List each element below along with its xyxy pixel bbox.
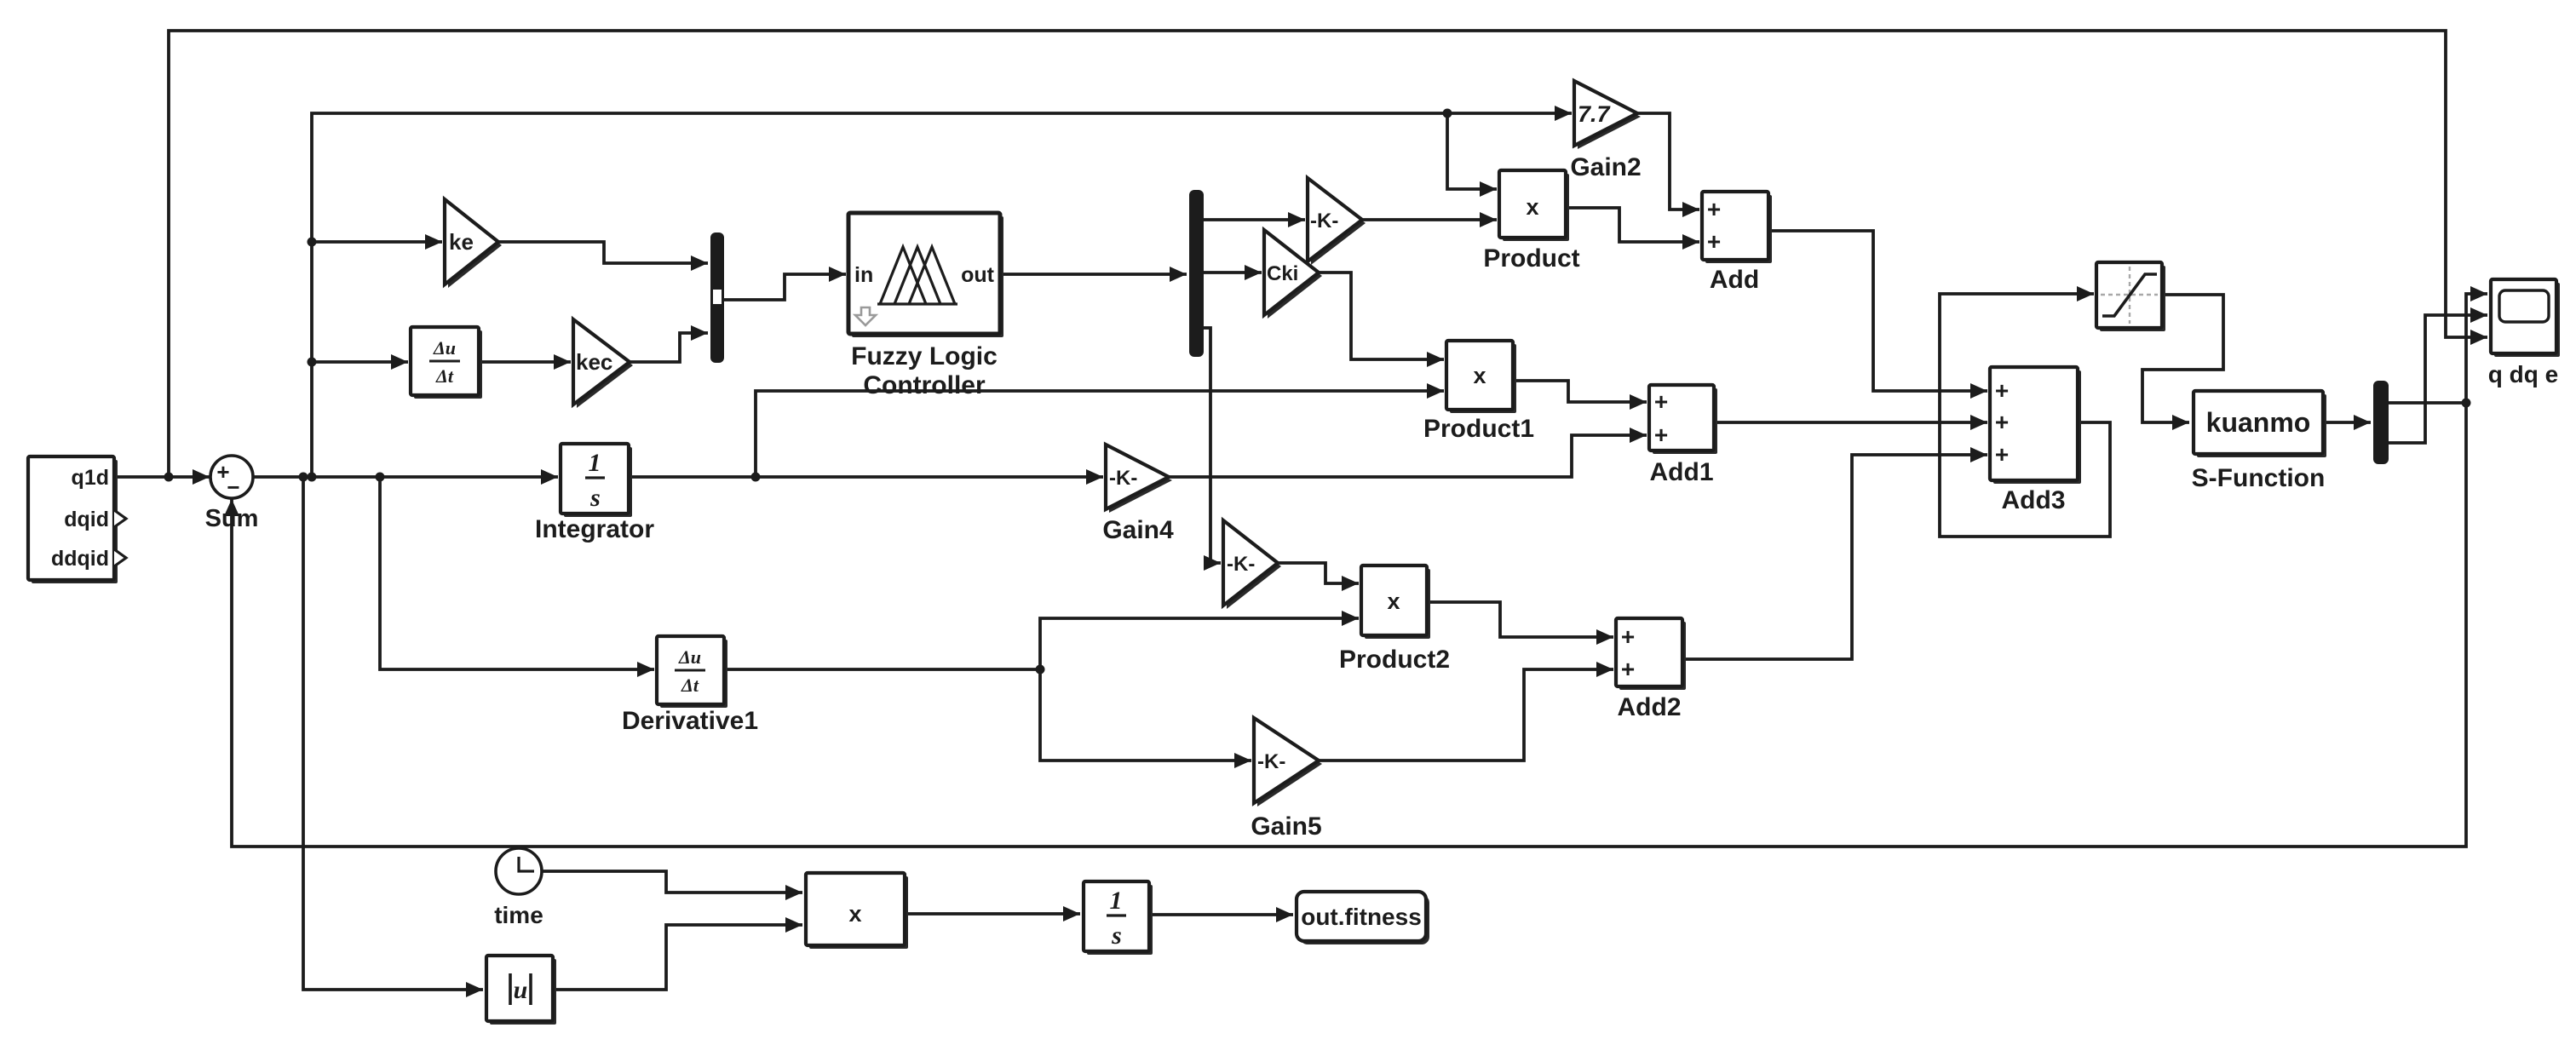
svg-text:+: + <box>1654 422 1668 448</box>
svg-text:Δu: Δu <box>678 646 701 668</box>
svg-text:Gain4: Gain4 <box>1102 516 1174 544</box>
svg-text:Fuzzy Logic: Fuzzy Logic <box>851 342 998 370</box>
svg-text:kec: kec <box>576 349 612 375</box>
svg-text:Controller: Controller <box>863 371 986 399</box>
svg-text:−: − <box>227 474 239 500</box>
svg-text:q dq e: q dq e <box>2488 361 2558 387</box>
svg-text:in: in <box>854 263 873 287</box>
svg-text:Add2: Add2 <box>1618 693 1682 721</box>
svg-text:ddqid: ddqid <box>51 547 109 571</box>
svg-text:Integrator: Integrator <box>535 515 654 543</box>
svg-text:Product: Product <box>1483 244 1579 273</box>
svg-text:+: + <box>1621 656 1635 682</box>
svg-text:dqid: dqid <box>64 508 109 531</box>
svg-text:-K-: -K- <box>1257 750 1285 773</box>
svg-text:Δt: Δt <box>435 365 454 387</box>
svg-text:x: x <box>1526 194 1538 220</box>
svg-text:Gain2: Gain2 <box>1570 153 1641 181</box>
svg-text:Product2: Product2 <box>1339 646 1450 674</box>
svg-text:kuanmo: kuanmo <box>2206 407 2311 438</box>
svg-text:q1d: q1d <box>72 466 109 490</box>
svg-text:out: out <box>961 263 995 287</box>
svg-text:S-Function: S-Function <box>2192 464 2326 492</box>
svg-text:-K-: -K- <box>1109 467 1137 490</box>
svg-text:+: + <box>1621 623 1635 650</box>
svg-text:Cki: Cki <box>1267 262 1298 285</box>
svg-text:7.7: 7.7 <box>1578 101 1612 127</box>
svg-text:x: x <box>1473 363 1486 388</box>
svg-text:Gain5: Gain5 <box>1251 812 1321 841</box>
svg-text:Derivative1: Derivative1 <box>622 707 758 735</box>
svg-text:Add: Add <box>1710 266 1759 294</box>
svg-text:-K-: -K- <box>1227 553 1255 576</box>
svg-text:1: 1 <box>1110 887 1123 915</box>
svg-text:Add3: Add3 <box>2002 486 2066 514</box>
svg-text:1: 1 <box>589 449 601 477</box>
svg-text:Sum: Sum <box>205 505 259 532</box>
svg-text:s: s <box>1111 921 1122 950</box>
svg-text:-K-: -K- <box>1310 210 1338 232</box>
svg-text:Product1: Product1 <box>1423 415 1534 443</box>
svg-text:ke: ke <box>449 229 474 255</box>
svg-text:Δu: Δu <box>433 337 456 359</box>
svg-text:Add1: Add1 <box>1650 458 1714 486</box>
svg-text:+: + <box>1707 196 1721 222</box>
svg-text:s: s <box>589 484 601 512</box>
svg-text:+: + <box>1654 388 1668 415</box>
svg-text:+: + <box>1995 441 2009 468</box>
svg-text:x: x <box>848 901 861 927</box>
svg-text:+: + <box>1707 228 1721 255</box>
svg-text:+: + <box>1995 377 2009 404</box>
svg-text:time: time <box>494 902 543 928</box>
svg-text:x: x <box>1387 588 1400 614</box>
svg-text:Δt: Δt <box>681 674 699 696</box>
svg-text:out.fitness: out.fitness <box>1301 904 1422 930</box>
svg-text:u: u <box>514 976 528 1004</box>
svg-text:+: + <box>1995 409 2009 435</box>
